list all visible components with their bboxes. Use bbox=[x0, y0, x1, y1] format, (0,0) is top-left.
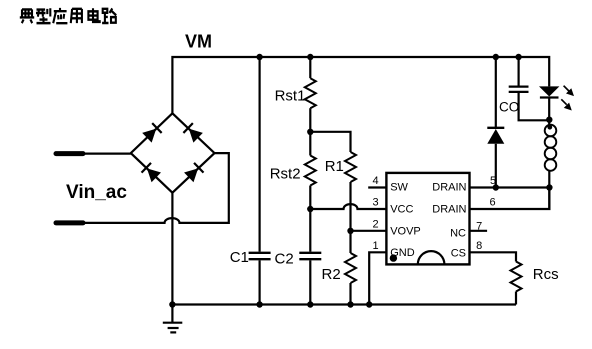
svg-text:8: 8 bbox=[476, 240, 482, 252]
svg-text:4: 4 bbox=[372, 175, 378, 187]
svg-text:GND: GND bbox=[390, 247, 415, 259]
svg-text:VCC: VCC bbox=[390, 203, 413, 215]
svg-text:CO: CO bbox=[499, 100, 519, 115]
svg-text:3: 3 bbox=[372, 197, 378, 209]
svg-text:Vin_ac: Vin_ac bbox=[66, 182, 127, 203]
svg-text:R1: R1 bbox=[325, 158, 344, 175]
svg-text:6: 6 bbox=[489, 197, 495, 209]
svg-text:CS: CS bbox=[451, 248, 466, 260]
svg-text:Rcs: Rcs bbox=[533, 266, 559, 283]
svg-text:SW: SW bbox=[390, 182, 408, 194]
svg-text:7: 7 bbox=[476, 221, 482, 233]
svg-text:DRAIN: DRAIN bbox=[432, 182, 466, 194]
svg-text:NC: NC bbox=[450, 227, 466, 239]
svg-text:C1: C1 bbox=[230, 249, 249, 266]
svg-text:1: 1 bbox=[372, 240, 378, 252]
svg-text:Rst2: Rst2 bbox=[270, 166, 301, 183]
svg-text:R2: R2 bbox=[322, 266, 341, 283]
svg-text:DRAIN: DRAIN bbox=[432, 203, 466, 215]
svg-text:C2: C2 bbox=[275, 251, 294, 268]
svg-text:2: 2 bbox=[372, 218, 378, 230]
svg-text:Rst1: Rst1 bbox=[275, 88, 306, 105]
svg-text:VOVP: VOVP bbox=[390, 226, 421, 238]
svg-text:VM: VM bbox=[185, 32, 212, 52]
svg-text:5: 5 bbox=[490, 175, 496, 187]
